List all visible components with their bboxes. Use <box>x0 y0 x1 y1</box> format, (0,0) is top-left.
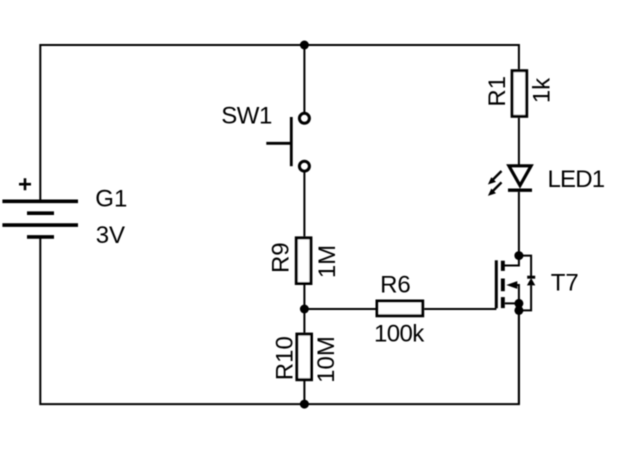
svg-text:G1: G1 <box>95 186 127 213</box>
svg-text:R10: R10 <box>272 336 299 380</box>
svg-text:R9: R9 <box>268 242 295 273</box>
svg-text:R1: R1 <box>484 76 511 107</box>
svg-text:3V: 3V <box>96 222 125 249</box>
svg-text:R6: R6 <box>380 272 411 299</box>
svg-text:1k: 1k <box>529 77 556 103</box>
svg-text:T7: T7 <box>551 269 579 296</box>
svg-text:SW1: SW1 <box>221 103 272 130</box>
svg-text:10M: 10M <box>313 336 340 383</box>
svg-text:100k: 100k <box>374 320 425 347</box>
svg-text:1M: 1M <box>314 245 341 278</box>
svg-text:LED1: LED1 <box>548 166 605 193</box>
